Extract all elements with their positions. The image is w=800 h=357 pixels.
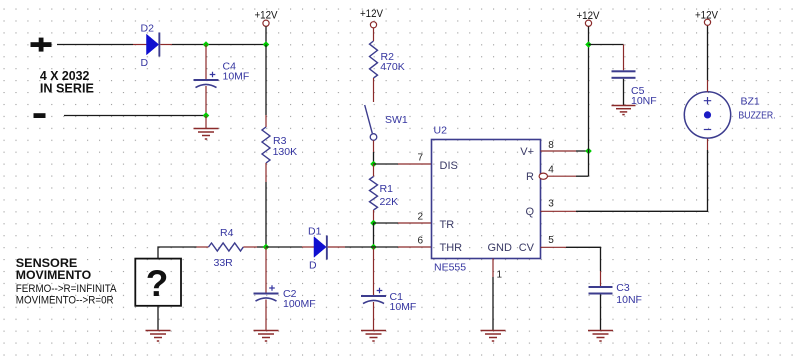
svg-text:22K: 22K	[380, 196, 399, 208]
diode D2	[141, 22, 161, 69]
svg-text:IN SERIE: IN SERIE	[40, 81, 94, 95]
svg-text:Q: Q	[525, 206, 534, 218]
capacitor C5	[612, 70, 657, 107]
wire to battery ground	[205, 116, 207, 129]
ground (C1)	[361, 331, 386, 342]
svg-text:NE555: NE555	[434, 262, 466, 274]
svg-text:D1: D1	[308, 226, 322, 238]
svg-text:D: D	[309, 260, 317, 272]
svg-text:10NF: 10NF	[616, 294, 642, 306]
svg-text:GND: GND	[488, 242, 513, 254]
wire +12V rail down to R3	[263, 41, 270, 48]
wire sensor box top to rail	[158, 247, 197, 259]
wire pin 8 lead	[541, 150, 577, 152]
capacitor C2	[254, 285, 316, 310]
svg-text:?: ?	[146, 263, 169, 304]
+12V power symbol (buzzer column)	[695, 9, 719, 25]
wire buzzer top lead	[707, 80, 709, 92]
svg-text:6: 6	[417, 236, 423, 247]
svg-text:THR: THR	[440, 242, 463, 254]
svg-text:BUZZER.: BUZZER.	[738, 109, 775, 121]
svg-text:33R: 33R	[214, 257, 234, 269]
wire C2 node to D1	[266, 246, 302, 248]
svg-text:MOVIMENTO: MOVIMENTO	[16, 268, 92, 282]
svg-text:V+: V+	[520, 146, 534, 158]
wire sensor box bottom	[157, 306, 159, 331]
wire pin 1 GND lead	[492, 259, 494, 278]
wire R3 to bottom rail	[265, 182, 267, 247]
wire C4 top lead	[205, 45, 207, 80]
svg-text:10MF: 10MF	[223, 70, 250, 82]
node junction C2 top	[263, 244, 270, 251]
switch SW1	[365, 105, 408, 140]
wire D1 anode lead	[302, 246, 314, 248]
wire R1 bottom lead	[373, 210, 375, 223]
op-amp timer U2 NE555 body	[432, 125, 541, 274]
wire R2 bottom lead	[373, 78, 375, 102]
wire pin 5 to C3	[566, 247, 601, 271]
wire pin 5 lead	[541, 246, 567, 248]
battery negative terminal	[34, 113, 46, 118]
wire THR node to pin 6	[374, 246, 432, 248]
node junction DIS	[370, 161, 377, 168]
svg-text:TR: TR	[440, 219, 455, 231]
svg-text:FERMO-->R=INFINITA: FERMO-->R=INFINITA	[16, 283, 117, 295]
svg-text:3: 3	[548, 199, 554, 210]
ground (sensor)	[146, 331, 171, 342]
node junction pin8	[585, 148, 592, 155]
capacitor C1	[361, 288, 416, 313]
capacitor C4	[194, 61, 250, 88]
svg-text:2: 2	[417, 212, 423, 223]
wire buzzer bottom lead	[707, 138, 709, 150]
wire buzzer to +12V	[707, 25, 709, 80]
svg-text:R: R	[526, 171, 534, 183]
wire pin 3 to buzzer	[576, 150, 708, 211]
wire pin 3 lead	[541, 210, 577, 212]
resistor R2	[370, 41, 405, 78]
wire C1 bottom lead	[373, 302, 375, 331]
svg-text:7: 7	[417, 153, 423, 164]
svg-text:+12V: +12V	[360, 8, 384, 20]
svg-text:4: 4	[548, 165, 554, 176]
svg-text:R1: R1	[380, 183, 394, 195]
resistor R4	[209, 227, 244, 269]
wire R4 left lead	[197, 246, 209, 248]
svg-text:D2: D2	[141, 22, 155, 34]
ground (battery)	[194, 129, 219, 140]
ground (pin 1)	[481, 331, 506, 342]
wire C2 top lead	[265, 247, 267, 293]
capacitor C3	[589, 282, 642, 306]
wire C5 branch horizontal	[589, 44, 624, 46]
wire R2 top lead	[373, 28, 375, 41]
wire C4 bottom lead	[205, 86, 207, 116]
battery positive terminal	[31, 38, 52, 52]
svg-text:130K: 130K	[273, 146, 298, 158]
wire TR node to pin 2	[374, 222, 432, 224]
node junction C4 top	[203, 41, 210, 48]
wire D2 to +12V node	[172, 44, 266, 46]
+12V power symbol (left)	[255, 10, 279, 45]
ground (C5)	[612, 106, 636, 115]
diode D1	[308, 226, 328, 272]
wire + terminal to D2 anode	[57, 44, 133, 46]
resistor R3	[262, 127, 297, 163]
wire R1 top lead	[373, 164, 375, 177]
svg-text:8: 8	[548, 140, 554, 151]
wire C2 bottom lead	[265, 300, 267, 331]
svg-text:BZ1: BZ1	[741, 95, 760, 107]
wire R3 top lead	[265, 115, 267, 127]
svg-text:U2: U2	[434, 125, 448, 137]
node junction C5 branch	[585, 41, 592, 48]
node junction TR	[370, 220, 377, 227]
ground (C3)	[588, 331, 613, 342]
wire DIS node to pin 7	[374, 163, 432, 165]
wire D2 cathode lead	[160, 44, 172, 46]
svg-text:1: 1	[497, 270, 503, 281]
wire C5 bottom lead	[623, 79, 625, 106]
svg-text:DIS: DIS	[440, 160, 458, 172]
U2 pin 4 inversion bubble	[539, 173, 547, 179]
wire D1 cathode lead	[328, 246, 345, 248]
buzzer BZ1	[684, 92, 775, 138]
wire SW1 to DIS node	[373, 140, 375, 164]
wire +12V down to pin4 corner	[588, 26, 590, 176]
wire C3 top lead	[600, 271, 602, 286]
+12V power symbol (R2 column)	[360, 8, 384, 28]
svg-text:C3: C3	[616, 282, 630, 294]
sensor box with ?	[135, 259, 181, 306]
wire C3 bottom lead	[600, 295, 602, 331]
node junction C4 bottom	[203, 112, 210, 119]
svg-text:D: D	[141, 57, 149, 69]
wire D2 anode lead	[133, 44, 147, 46]
svg-text:5: 5	[548, 235, 554, 246]
node junction THR rail	[370, 244, 377, 251]
wire C1 top lead	[373, 247, 375, 295]
svg-text:100MF: 100MF	[283, 298, 316, 310]
wire pin 4 lead	[548, 175, 576, 177]
resistor R1	[370, 177, 399, 211]
wire R4 to C2 node	[257, 246, 266, 248]
+12V power symbol (IC column)	[577, 10, 601, 26]
sensor movement text	[16, 256, 117, 306]
wire R3 bottom lead	[265, 163, 267, 182]
wire R4 right lead	[243, 246, 257, 248]
wire C5 top lead	[623, 45, 625, 71]
wire pin 8 to +12V rail	[576, 150, 589, 152]
svg-text:470K: 470K	[380, 61, 405, 73]
battery label 4 X 2032 IN SERIE	[40, 69, 94, 95]
svg-text:R4: R4	[220, 227, 234, 239]
ground (C2)	[254, 331, 279, 342]
svg-text:10MF: 10MF	[390, 301, 417, 313]
svg-text:MOVIMENTO-->R=0R: MOVIMENTO-->R=0R	[16, 294, 114, 306]
svg-text:CV: CV	[519, 242, 535, 254]
wire D1 to THR node	[345, 246, 374, 248]
wire - terminal to C4 node	[64, 115, 206, 117]
svg-text:SW1: SW1	[385, 114, 408, 126]
wire pin 4 corner to rail	[576, 175, 589, 177]
wire pin 1 to ground	[492, 277, 494, 331]
wire TR node down to THR rail	[373, 223, 375, 247]
